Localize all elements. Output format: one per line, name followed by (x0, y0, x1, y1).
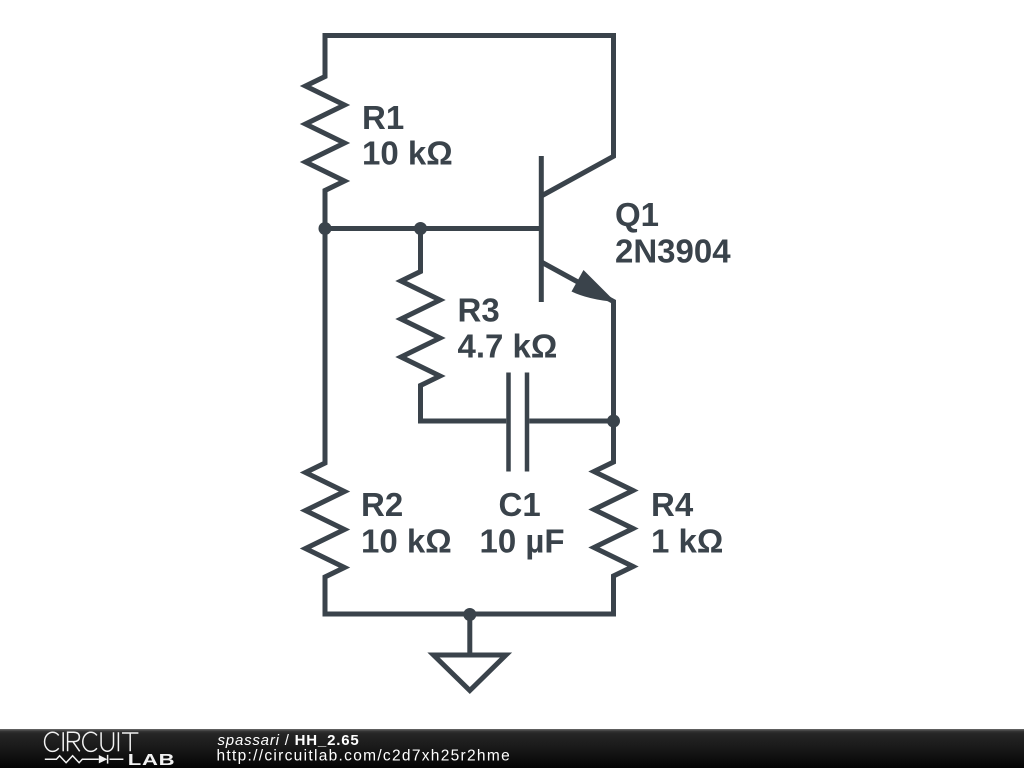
svg-text:C1: C1 (499, 486, 541, 523)
node A junction dot (319, 222, 332, 235)
wire bottom rail (323, 612, 617, 617)
resistor R1 (306, 33, 345, 229)
node C junction dot (emitter/R4/C1) (607, 415, 620, 428)
svg-text:Q1: Q1 (615, 196, 659, 233)
node D junction dot (ground) (463, 608, 476, 621)
wire node B to Q1 base (421, 226, 542, 231)
capacitor C1 (418, 373, 614, 472)
svg-text:4.7 kΩ: 4.7 kΩ (458, 328, 558, 365)
resistor R3 (401, 229, 440, 422)
svg-text:R2: R2 (361, 486, 403, 523)
resistor R2 (306, 229, 345, 615)
svg-text:spassari / HH_2.65: spassari / HH_2.65 (218, 732, 360, 749)
svg-text:2N3904: 2N3904 (615, 233, 731, 270)
svg-text:10 kΩ: 10 kΩ (361, 522, 452, 559)
svg-text:R1: R1 (362, 99, 404, 136)
CircuitLab logo: resistor-diode glyph (45, 755, 124, 764)
transistor Q1 (541, 33, 615, 421)
svg-text:LAB: LAB (128, 752, 175, 768)
svg-text:10 µF: 10 µF (480, 522, 565, 559)
svg-text:1 kΩ: 1 kΩ (651, 522, 723, 559)
svg-text:http://circuitlab.com/c2d7xh25: http://circuitlab.com/c2d7xh25r2hme (217, 748, 511, 765)
svg-text:10 kΩ: 10 kΩ (362, 135, 453, 172)
svg-text:R3: R3 (458, 292, 500, 329)
CircuitLab logo: CIRCUIT wordmark (45, 732, 139, 751)
footer bar (0, 729, 1024, 768)
ground (434, 614, 507, 691)
svg-text:R4: R4 (651, 486, 694, 523)
resistor R4 (594, 421, 633, 614)
wire node A to node B (base row left) (325, 226, 421, 231)
wire top rail (323, 33, 617, 38)
node B junction dot (414, 222, 427, 235)
